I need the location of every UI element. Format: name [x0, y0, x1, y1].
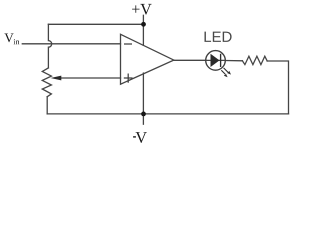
wire -V stub [142, 114, 144, 124]
LED D1 diode triangle [211, 54, 220, 67]
power +V label [132, 4, 152, 15]
op-amp U1 triangle [121, 34, 174, 84]
power -V label [133, 136, 136, 138]
LED D1 cathode bar [220, 54, 222, 67]
op-amp inverting input minus sign [124, 43, 132, 45]
wire +V stub [142, 15, 144, 24]
op-amp non-inverting input plus sign [124, 74, 133, 83]
wire rail to potentiometer with hop over Vin [48, 24, 51, 68]
label LED [205, 32, 232, 42]
label Vin [4, 34, 13, 43]
wire resistor to right corner down to -V rail [267, 61, 288, 114]
wire wiper to non-inverting input [61, 77, 121, 79]
wire op-amp -V supply [142, 73, 144, 114]
LED D1 emission arrow lower [221, 70, 227, 77]
wire +V rail [48, 23, 143, 25]
node junction dot at +V rail [141, 22, 146, 27]
potentiometer wiper arrowhead [51, 76, 62, 81]
wire LED to resistor [225, 60, 242, 62]
node junction dot at -V rail [141, 112, 146, 117]
wire -V rail (bottom) [47, 113, 288, 115]
LED D1 circle [206, 51, 226, 71]
LED D1 emission arrow upper [224, 68, 231, 75]
resistor R2 body (zigzag) [242, 56, 267, 64]
potentiometer R1 body (zigzag) [42, 68, 51, 97]
wire op-amp output to LED [174, 59, 206, 61]
wire op-amp +V supply [142, 24, 144, 45]
LED D1 internal wire [206, 59, 226, 61]
wire Vin to inverting input [22, 43, 120, 45]
wire potentiometer bottom to -V rail [46, 97, 48, 114]
